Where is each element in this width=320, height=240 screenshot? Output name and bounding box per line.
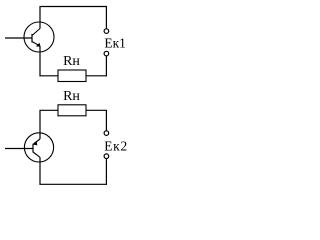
wire: to resistor R1 right lead <box>86 75 107 77</box>
transistor VT1 collector diagonal <box>32 29 40 36</box>
terminal circle Ek2 plus <box>104 131 109 136</box>
transistor VT1 body <box>24 22 54 52</box>
wire: resistor R1 left lead <box>40 75 59 77</box>
transistor VT1 base lead wire <box>5 37 32 39</box>
wire: right drop to terminal Ek2 plus <box>105 110 107 131</box>
transistor VT1 emitter arrowhead <box>36 43 41 47</box>
transistor VT2 emitter arrowhead (points to base bar) <box>33 141 38 146</box>
transistor VT2 emitter diagonal (upper) <box>33 139 40 144</box>
wire: from Ek1 minus terminal down <box>105 56 107 77</box>
terminal circle Ek1 minus <box>104 51 109 56</box>
wire: VT2 collector down to bottom rail <box>39 157 41 185</box>
transistor VT1 base bar <box>31 34 33 43</box>
svg-text:Ек2: Ек2 <box>104 139 128 154</box>
wire: resistor R2 left lead <box>40 109 59 111</box>
resistor R1 (Rn) body <box>58 70 86 82</box>
resistor R2 (Rn) body <box>58 105 86 116</box>
wire: bottom rail <box>40 183 107 185</box>
wire: from Ek2 minus terminal down <box>105 159 107 185</box>
transistor VT2 base bar <box>32 144 34 153</box>
svg-text:Rн: Rн <box>63 89 80 104</box>
terminal circle Ek1 plus <box>104 29 109 34</box>
wire: right drop to terminal Ek1 plus <box>105 7 107 29</box>
wire: VT1 emitter down <box>39 46 41 77</box>
transistor VT1 emitter diagonal <box>32 42 40 46</box>
wire: top rail <box>40 6 107 8</box>
wire: down to VT2 emitter (upper) <box>39 110 41 139</box>
svg-text:Ек1: Ек1 <box>104 36 125 51</box>
terminal circle Ek2 minus <box>104 154 109 159</box>
wire: resistor R2 right lead <box>86 109 107 111</box>
svg-text:Rн: Rн <box>63 54 80 69</box>
transistor VT2 body <box>24 133 53 162</box>
wire: VT1 collector up <box>39 7 41 29</box>
transistor VT2 collector diagonal (lower) <box>33 152 40 157</box>
transistor VT2 base lead wire <box>5 148 33 150</box>
